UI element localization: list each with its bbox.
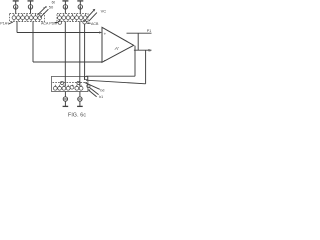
svg-text:60: 60 xyxy=(52,0,56,4)
svg-text:ACA PDM: ACA PDM xyxy=(41,21,57,25)
svg-text:fb: fb xyxy=(148,49,151,53)
svg-text:+: + xyxy=(104,31,107,36)
svg-text:50: 50 xyxy=(49,5,54,10)
svg-text:bd: bd xyxy=(100,88,104,92)
svg-text:P1A=: P1A= xyxy=(0,22,9,26)
svg-text:VC: VC xyxy=(101,9,107,14)
svg-text:ACB: ACB xyxy=(91,22,99,26)
svg-text:FIG. 6c: FIG. 6c xyxy=(68,112,86,118)
svg-text:A′: A′ xyxy=(114,46,120,52)
svg-text:−: − xyxy=(104,58,107,63)
svg-text:b1: b1 xyxy=(99,95,103,99)
svg-text:P1: P1 xyxy=(147,29,151,33)
